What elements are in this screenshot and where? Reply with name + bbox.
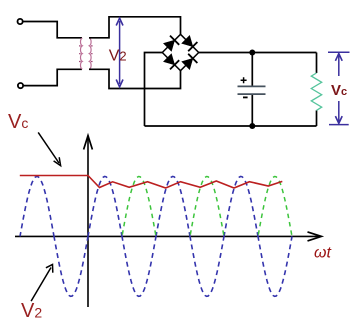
svg-text:ωt: ωt <box>314 245 331 262</box>
junction top <box>249 50 255 56</box>
svg-text:Vc: Vc <box>331 82 347 99</box>
svg-text:V2: V2 <box>109 47 127 64</box>
terminal input A <box>18 19 23 24</box>
y-axis <box>87 136 89 308</box>
svg-text:Vc: Vc <box>8 111 28 133</box>
diode D1 upper-left <box>163 36 179 52</box>
waveform Vc ripple red <box>20 176 283 189</box>
svg-text:V2: V2 <box>21 300 42 319</box>
wire primary bottom <box>23 69 82 85</box>
waveform rectified green dashed <box>122 177 292 237</box>
label Vc pointer arrow <box>38 132 59 163</box>
wire bottom rail <box>145 125 317 127</box>
resistor load zigzag <box>311 73 321 110</box>
Vc measurement arrows <box>328 52 350 124</box>
capacitor plus label <box>241 77 247 83</box>
capacitor C plates <box>238 85 266 87</box>
wire bridge right to top rail <box>199 52 317 54</box>
diode D4 lower-right <box>181 54 197 70</box>
resistor load leads <box>316 53 318 74</box>
wire bridge left to bottom rail <box>145 53 163 127</box>
transformer primary winding <box>81 38 83 69</box>
V2 measurement arrow <box>116 18 123 87</box>
capacitor C leads <box>251 53 253 87</box>
wire secondary top to bridge top <box>89 17 181 38</box>
diode D2 upper-right <box>181 35 197 51</box>
junction bottom <box>249 123 255 129</box>
bridge rectifier diamond <box>162 34 198 70</box>
wire primary top <box>23 22 82 38</box>
x-axis <box>15 235 321 237</box>
capacitor minus label <box>243 96 248 98</box>
label V2 pointer arrow <box>31 268 51 302</box>
diode D3 lower-left <box>163 53 179 69</box>
waveform V2 sine blue dashed <box>20 177 292 297</box>
terminal input B <box>18 83 23 88</box>
transformer secondary winding <box>89 38 91 69</box>
wire secondary bottom to bridge bottom <box>89 69 181 88</box>
